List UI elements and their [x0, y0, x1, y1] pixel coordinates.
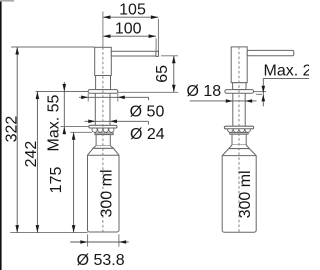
svg-text:100: 100 [115, 21, 142, 38]
svg-text:Ø 18: Ø 18 [186, 83, 221, 100]
svg-text:175: 175 [48, 167, 65, 194]
svg-text:300 ml: 300 ml [98, 169, 115, 217]
svg-text:Max. 25: Max. 25 [264, 63, 310, 80]
svg-text:Ø 24: Ø 24 [130, 126, 165, 143]
svg-text:322: 322 [3, 116, 20, 143]
svg-text:300 ml: 300 ml [237, 170, 254, 218]
svg-text:105: 105 [119, 1, 146, 18]
svg-text:242: 242 [23, 141, 40, 168]
svg-text:Ø 50: Ø 50 [130, 103, 165, 120]
svg-text:65: 65 [154, 65, 171, 83]
svg-text:Ø 53.8: Ø 53.8 [77, 252, 125, 269]
svg-text:Max. 55: Max. 55 [45, 94, 62, 151]
